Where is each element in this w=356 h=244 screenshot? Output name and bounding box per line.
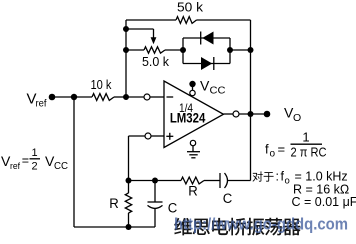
svg-text:2: 2 bbox=[31, 161, 37, 173]
ground symbol bbox=[187, 151, 200, 153]
wire diode to right rail bbox=[230, 49, 251, 51]
wiper arrowhead bbox=[151, 37, 157, 44]
resistor R_f 50 k bbox=[176, 17, 197, 24]
svg-text:ref: ref bbox=[10, 161, 20, 172]
node junction bottom bbox=[126, 224, 132, 230]
resistor R series bbox=[181, 177, 204, 184]
wire diode box right side bbox=[229, 38, 231, 64]
svg-text:2 π RC: 2 π RC bbox=[291, 145, 327, 160]
wire output node bbox=[239, 113, 267, 115]
svg-text::: : bbox=[276, 170, 279, 184]
svg-text:O: O bbox=[293, 112, 301, 124]
wire potentiometer wiper bbox=[126, 28, 154, 30]
svg-text:CC: CC bbox=[210, 85, 226, 97]
wire inverting node to pin bbox=[126, 96, 144, 98]
node junction right-rail-top bbox=[248, 47, 254, 53]
svg-text:1: 1 bbox=[31, 147, 37, 159]
op-amp U1 triangle bbox=[164, 81, 224, 148]
node junction wiper bbox=[123, 26, 129, 32]
node junction C-parallel tap bbox=[152, 178, 158, 184]
wire plus input bbox=[129, 135, 146, 137]
svg-text:R: R bbox=[188, 184, 198, 199]
node junction left-rail-top bbox=[71, 94, 77, 100]
wire output to pin bbox=[224, 113, 234, 115]
wire pin to op-amp bbox=[150, 96, 164, 98]
svg-text:1: 1 bbox=[302, 130, 309, 145]
op-amp minus sign bbox=[167, 96, 174, 98]
label conditions row 1 bbox=[253, 171, 263, 181]
terminal VO bbox=[264, 111, 271, 118]
pin circle VCC bbox=[190, 90, 195, 95]
pin circle ground bbox=[190, 140, 195, 145]
node junction pot-left bbox=[123, 47, 129, 53]
wire left rail bbox=[73, 97, 75, 227]
potentiometer 5.0 k bbox=[144, 47, 165, 53]
wire diode bottom branch bbox=[183, 63, 230, 65]
wire R to C series bbox=[204, 180, 220, 182]
svg-text:o: o bbox=[285, 176, 290, 187]
wire pot row left bbox=[126, 49, 144, 51]
capacitor C parallel bbox=[154, 181, 156, 203]
svg-text:=: = bbox=[22, 154, 29, 168]
svg-text:C: C bbox=[168, 201, 178, 216]
svg-text:50 k: 50 k bbox=[177, 0, 204, 15]
resistor 10 k bbox=[92, 94, 114, 101]
node junction diode-left bbox=[180, 47, 186, 53]
resistor R parallel bbox=[128, 181, 130, 194]
node junction output bbox=[248, 111, 254, 117]
wire pot to diode bridge bbox=[165, 49, 183, 51]
caption Wien bridge oscillator bbox=[174, 218, 192, 236]
terminal VCC bbox=[189, 81, 195, 87]
svg-text:V: V bbox=[200, 78, 210, 94]
svg-text:R: R bbox=[109, 196, 119, 211]
capacitor C series bbox=[219, 173, 221, 188]
svg-text:= 1.0 kHz: = 1.0 kHz bbox=[295, 170, 348, 184]
svg-text:f: f bbox=[265, 142, 269, 157]
wire right vertical rail bbox=[250, 20, 252, 181]
wire left feedback vertical bbox=[125, 20, 127, 97]
svg-text:http://www.go-gddq.com: http://www.go-gddq.com bbox=[174, 216, 348, 234]
svg-text:CC: CC bbox=[54, 160, 68, 172]
wire diode box left side bbox=[182, 38, 184, 64]
wire diode top branch bbox=[183, 37, 230, 39]
wire 10k to inverting node bbox=[114, 96, 126, 98]
svg-text:LM324: LM324 bbox=[170, 109, 206, 125]
terminal Vref bbox=[49, 94, 56, 101]
pin circle non-inverting input bbox=[145, 133, 151, 139]
wire C series to right rail bbox=[227, 180, 250, 182]
diode D1 (points left) bbox=[202, 32, 213, 45]
svg-text:C = 0.01 μF: C = 0.01 μF bbox=[292, 195, 356, 209]
svg-text:o: o bbox=[270, 149, 276, 160]
wire ground stem bbox=[192, 146, 194, 152]
op-amp plus sign bbox=[166, 135, 173, 137]
svg-text:ref: ref bbox=[36, 99, 47, 110]
wire VCC stem bbox=[192, 84, 194, 90]
pin circle inverting input bbox=[144, 94, 150, 100]
svg-text:5.0 k: 5.0 k bbox=[142, 54, 169, 69]
node junction inverting bbox=[123, 94, 129, 100]
svg-text:10 k: 10 k bbox=[91, 78, 113, 92]
wire bottom rail bbox=[74, 226, 155, 228]
pin circle output bbox=[233, 111, 239, 117]
diode D2 (points right) bbox=[201, 57, 212, 70]
wire plus branch vertical bbox=[128, 136, 130, 181]
wire Wien node row bbox=[129, 180, 182, 182]
node junction plus-branch bbox=[126, 178, 132, 184]
svg-text:C: C bbox=[223, 191, 233, 206]
wire top feedback rail bbox=[126, 19, 176, 21]
svg-text:=: = bbox=[278, 142, 286, 157]
wire Vref to 10k bbox=[52, 96, 92, 98]
node junction diode-right bbox=[227, 47, 233, 53]
